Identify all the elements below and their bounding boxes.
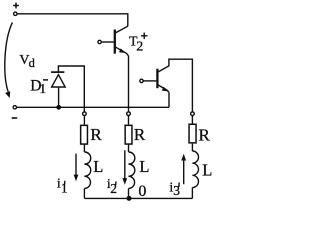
transistor T2 (98, 26, 129, 56)
Q2 base terminal circle (140, 79, 143, 82)
svg-text:0: 0 (138, 183, 146, 200)
label node 0 (138, 183, 146, 200)
label R3 (199, 125, 211, 144)
wire R2 to L2 (128, 144, 130, 152)
current arrow i3 (183, 160, 185, 185)
Vd arrow (5, 22, 13, 91)
node terminal circle branch 2 (127, 112, 131, 116)
current arrow i1 (75, 154, 77, 176)
svg-text:R: R (90, 125, 102, 144)
wire top bus (17, 14, 128, 27)
resistor R3 (189, 124, 196, 143)
wire R1 to L1 (83, 144, 85, 152)
wire L3 to bottom bus (191, 188, 193, 199)
resistor R2 (125, 125, 132, 144)
wire diode cathode to box (58, 66, 84, 112)
label i2' (107, 177, 117, 196)
label R2 (134, 125, 146, 144)
label L2 (139, 157, 149, 176)
T2 collector (116, 26, 128, 33)
svg-text:1: 1 (39, 82, 46, 97)
svg-text:L: L (202, 160, 212, 179)
wire branch1 top (83, 116, 85, 125)
T2 base bar (114, 30, 116, 54)
wire L1 to bottom bus (83, 188, 85, 198)
inductor L2 (129, 152, 135, 188)
terminal + (open circle) (14, 12, 17, 15)
T2 base terminal circle (98, 40, 101, 43)
diode D1 (52, 75, 66, 87)
node junction dot branch2 bottom (127, 196, 132, 201)
label R1 (90, 125, 102, 144)
wire L2 to bottom bus (128, 188, 130, 198)
label T2+ (129, 34, 143, 54)
T2 base lead (102, 41, 114, 43)
svg-text:L: L (139, 157, 149, 176)
label i3' (169, 180, 180, 198)
wire branch3 top (191, 116, 193, 124)
current arrow i2 (124, 150, 126, 179)
node junction dot (diode anode on bus) (56, 105, 61, 110)
wire bottom bus (84, 197, 192, 199)
svg-text:R: R (134, 125, 146, 144)
label L1 (93, 157, 103, 176)
node terminal circle branch 1 (83, 112, 87, 116)
plus label of source terminal (13, 3, 19, 9)
label L3 (202, 160, 212, 179)
Q2 base bar (156, 69, 158, 89)
inductor L3 (192, 151, 198, 188)
node terminal circle branch 3 (191, 112, 195, 116)
svg-text:2: 2 (136, 39, 143, 54)
T2 emitter (116, 47, 129, 56)
svg-text:R: R (199, 125, 211, 144)
label D1 (30, 78, 46, 97)
wire Q2 emitter down (168, 92, 170, 107)
Q2 base lead (143, 80, 156, 82)
label Vd (19, 53, 35, 70)
svg-text:L: L (93, 157, 103, 176)
svg-text:d: d (29, 56, 36, 70)
Q2 collector (158, 59, 192, 111)
wire R3 to L3 (191, 144, 193, 151)
resistor R1 (81, 125, 88, 144)
terminal - (open circle) (13, 106, 16, 109)
wire diode anode (58, 87, 60, 107)
inductor L1 (84, 152, 90, 188)
Q2 emitter (158, 85, 169, 92)
wire main bus (17, 106, 169, 108)
wire branch2 top (128, 116, 130, 125)
wire T2 emitter down (128, 56, 130, 112)
label i1' (57, 176, 68, 195)
minus label of source terminal (12, 117, 18, 119)
transistor Q2 (140, 59, 193, 111)
